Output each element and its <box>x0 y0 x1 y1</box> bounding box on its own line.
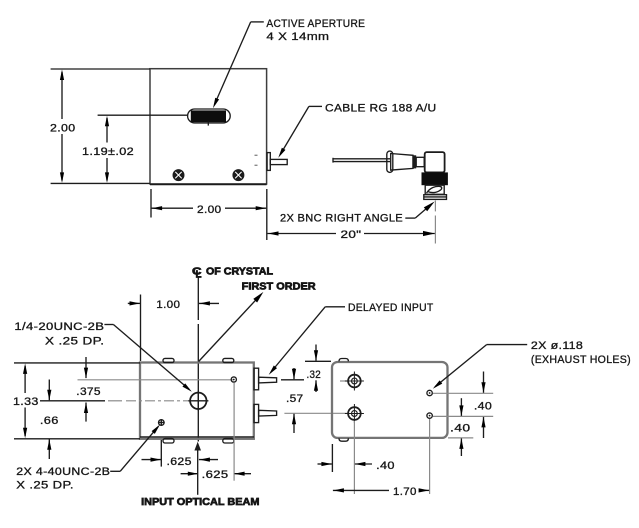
svg-text:.66: .66 <box>40 415 59 427</box>
svg-text:.625: .625 <box>202 469 229 481</box>
svg-text:DELAYED INPUT: DELAYED INPUT <box>348 302 434 314</box>
svg-text:.375: .375 <box>76 386 101 398</box>
svg-text:X .25 DP.: X .25 DP. <box>45 336 104 348</box>
svg-text:1.19±.02: 1.19±.02 <box>82 146 134 158</box>
svg-text:(EXHAUST HOLES): (EXHAUST HOLES) <box>531 354 631 366</box>
svg-text:1/4-20UNC-2B: 1/4-20UNC-2B <box>14 321 104 333</box>
svg-text:.40: .40 <box>474 401 492 413</box>
svg-text:.57: .57 <box>286 393 304 405</box>
svg-text:FIRST ORDER: FIRST ORDER <box>242 280 316 292</box>
svg-text:2.00: 2.00 <box>50 123 76 135</box>
svg-text:CABLE RG 188 A/U: CABLE RG 188 A/U <box>325 103 437 115</box>
svg-text:.40: .40 <box>450 422 471 434</box>
svg-text:2X ø.118: 2X ø.118 <box>531 340 583 352</box>
svg-text:.40: .40 <box>376 460 395 472</box>
svg-text:2.00: 2.00 <box>197 204 222 216</box>
svg-text:OF CRYSTAL: OF CRYSTAL <box>206 266 274 278</box>
svg-text:2X 4-40UNC-2B: 2X 4-40UNC-2B <box>16 466 110 478</box>
svg-text:X .25 DP.: X .25 DP. <box>16 479 74 491</box>
svg-text:4 X 14mm: 4 X 14mm <box>266 31 329 43</box>
svg-text:2X BNC RIGHT ANGLE: 2X BNC RIGHT ANGLE <box>280 212 403 224</box>
svg-text:.32: .32 <box>307 369 322 381</box>
svg-text:L: L <box>196 268 203 280</box>
svg-text:1.70: 1.70 <box>393 486 417 498</box>
svg-text:.625: .625 <box>167 456 192 468</box>
svg-text:ACTIVE APERTURE: ACTIVE APERTURE <box>266 18 365 30</box>
svg-text:INPUT OPTICAL BEAM: INPUT OPTICAL BEAM <box>141 496 260 508</box>
svg-text:1.00: 1.00 <box>156 299 180 311</box>
svg-text:20": 20" <box>341 229 362 241</box>
svg-text:1.33: 1.33 <box>13 396 39 408</box>
